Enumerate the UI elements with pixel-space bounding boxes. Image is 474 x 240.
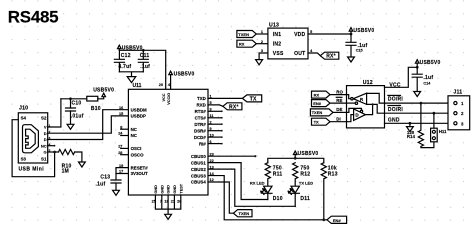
svg-text:10: 10 [210,133,214,137]
U12 receiver triangle R [353,93,366,104]
flag TXEN (U12) [310,109,333,116]
svg-text:H11: H11 [439,129,447,134]
pin 2 stub [208,123,222,125]
svg-text:S3: S3 [21,156,27,161]
internal bus C (D out join) [366,104,373,114]
DI internal route [347,115,354,122]
resistor R12 [293,163,298,187]
svg-text:GND: GND [160,185,164,194]
wire VCC to 5V node [385,67,418,87]
RO internal route [347,95,351,99]
pin 11 stub [208,117,222,119]
ground (C11 C12) [127,77,136,83]
svg-text:DE: DE [336,107,342,112]
capacitor C15 [346,34,356,57]
svg-text:8: 8 [120,125,122,129]
svg-text:RX LED: RX LED [250,181,265,186]
svg-text:VDD: VDD [294,32,305,38]
svg-text:TXEN: TXEN [312,110,323,115]
power symbol USB5V0 (top rail) [118,45,122,49]
svg-text:D10: D10 [273,196,283,202]
internal bus B (R bottom to DO/RI 2) [367,104,385,113]
flag EN# (bottom) [327,216,347,223]
power symbol USB5V0 (J11) [415,60,419,64]
svg-text:DI: DI [336,117,340,122]
wire RXD to RX* flag [208,105,223,106]
svg-text:TXD: TXD [197,96,206,101]
IC U12 body [347,86,385,128]
svg-text:R12: R12 [300,171,310,177]
svg-text:TX: TX [250,96,257,102]
connector J11 body [448,96,470,130]
svg-text:2: 2 [261,40,263,44]
svg-text:C12: C12 [121,53,131,59]
svg-text:S1: S1 [41,156,47,161]
svg-text:6: 6 [210,140,212,144]
svg-text:.1uf: .1uf [140,64,150,70]
svg-text:1M: 1M [62,168,69,174]
wire CBUS0 stub [208,155,255,157]
svg-text:J11: J11 [453,90,462,96]
svg-text:RX*: RX* [326,54,336,60]
wire pin4 [170,75,172,90]
svg-text:B10: B10 [91,106,101,112]
ground (U11) [165,214,172,219]
svg-text:IN1: IN1 [273,32,282,38]
wire RX to RO [330,94,347,96]
svg-text:25: 25 [152,199,156,203]
USB receptacle symbol inner [26,129,36,148]
wire 5V to ferrite bead [61,98,87,100]
svg-text:1: 1 [261,30,263,34]
flag TXEN (bottom) [233,210,252,217]
svg-text:EN#: EN# [333,218,342,223]
header H11 [431,128,438,142]
pin 9 stub [208,130,222,132]
svg-text:EN#: EN# [313,101,322,106]
svg-text:D: D [44,131,47,136]
svg-text:R11: R11 [273,171,283,177]
svg-text:C10: C10 [72,100,82,106]
pin 6 stub [208,143,222,145]
svg-text:GND: GND [388,117,400,123]
svg-text:RTS#: RTS# [195,109,207,114]
wire GND to J11 pin3 [385,122,454,124]
svg-text:CBUS3: CBUS3 [191,173,206,178]
IC U13 body [268,28,308,59]
wire TX to DI [330,121,347,123]
svg-text:C15: C15 [356,48,363,52]
svg-text:GND: GND [167,185,171,194]
RE internal route [347,102,356,104]
svg-text:USBDP: USBDP [131,114,146,119]
svg-text:C14: C14 [423,81,431,85]
wire CBUS3 to EN# rail [208,176,327,220]
svg-text:RXD: RXD [197,103,206,108]
svg-text:NC: NC [131,133,138,138]
pin 27 stub [121,147,129,149]
ground (C14) [414,92,421,97]
svg-text:OUT: OUT [294,51,305,57]
pin 10 stub [208,136,222,138]
junction R13 rail [322,218,325,221]
wire EN# to RE [330,102,347,104]
svg-text:4.7uf: 4.7uf [118,64,131,70]
svg-text:.01uf: .01uf [71,113,84,119]
DE enable bubble [360,110,362,112]
wire DO/RI 2 to J11 pin2 [385,112,454,114]
junction H11 tap [433,112,436,115]
svg-text:C13: C13 [100,174,110,180]
svg-text:7: 7 [160,199,162,203]
svg-text:GND: GND [173,185,177,194]
pin 24 stub [121,135,129,137]
wire CBUS2 to D11 [208,169,295,206]
svg-text:2: 2 [210,120,212,124]
junction GND drop [409,122,412,125]
wire VBUS pin V up to 5V rail [48,99,61,127]
svg-text:CTS#: CTS# [195,116,207,121]
pin 8 stub [121,128,129,130]
flag RX* [223,103,242,110]
svg-text:CBUS2: CBUS2 [191,167,206,172]
svg-text:G: G [43,150,46,155]
svg-text:CBUS1: CBUS1 [191,160,206,165]
svg-text:VCC: VCC [162,93,166,101]
svg-text:OSCI: OSCI [131,146,142,151]
svg-text:3V3OUT: 3V3OUT [131,171,148,176]
wire H11 top [433,113,435,128]
svg-text:RX: RX [239,42,245,47]
svg-text:NC: NC [131,127,138,132]
svg-text:.1uf: .1uf [423,75,433,81]
wire TXD to TX flag [208,97,242,99]
wire G pin [48,151,59,153]
wire USB D- to USBDM [48,110,129,140]
stub NC pin [48,145,55,147]
svg-text:USB5V0: USB5V0 [298,151,319,157]
LED supply rail [268,155,324,163]
svg-text:NC: NC [41,143,47,148]
power symbol USB5V0 (bead) [102,93,106,97]
ground (U13 VSS) [256,60,263,65]
junction G / shield [53,151,56,154]
power symbol USB5V0 (U13) [349,28,353,32]
junction rail R12 [294,157,297,160]
LED D10 arrows [261,189,266,195]
svg-text:S4: S4 [21,115,27,120]
svg-text:D: D [44,137,47,142]
svg-text:20: 20 [159,83,163,87]
svg-text:VCCIO: VCCIO [167,93,171,105]
shield outline wire to G net [12,120,55,177]
junction R14 tap [420,102,423,105]
svg-text:16: 16 [119,106,123,110]
ferrite bead B10 [87,96,98,101]
RE enable bubble [355,102,357,104]
capacitor C12 [114,50,124,72]
LED D11 arrows [288,189,293,195]
wire RESET tied to 3V3OUT [116,168,128,174]
svg-text:DTR#: DTR# [194,122,206,127]
resistor R14 [418,103,434,148]
wire DO/RI 1 to J11 pin1 [385,102,454,104]
flag EN# (U12) [312,100,331,107]
ground (C13) [113,190,120,195]
ground (C10) [67,124,74,129]
wire OUT to RX* flag [308,53,320,56]
J11 pin 3 [454,122,457,125]
svg-text:3: 3 [210,108,212,112]
flag RX* (U13 out) [320,52,339,59]
svg-text:27: 27 [118,145,122,149]
ground (GND net) [407,127,414,132]
svg-text:RX*: RX* [229,104,239,110]
svg-text:USBDM: USBDM [131,107,147,112]
wire R10 to ground [75,152,82,162]
USB receptacle symbol outer [23,125,39,153]
junction VDD node [350,33,353,36]
resistor R10 zigzag [59,149,75,154]
svg-text:21: 21 [171,199,175,203]
U12 driver triangle D [354,109,366,121]
svg-text:DCD#: DCD# [194,135,207,140]
wire 5V top rail to pin20 [119,49,165,90]
svg-text:VSS: VSS [273,51,284,57]
wire bead to USB5V0 arrow [98,97,104,99]
svg-text:USB Mini: USB Mini [19,166,45,172]
svg-text:11: 11 [210,114,214,118]
svg-text:V: V [44,125,47,130]
svg-text:D11: D11 [300,196,310,202]
wire TXEN to DE [333,111,347,113]
svg-text:TEST: TEST [179,183,183,193]
capacitor C11 [138,50,148,72]
wire CBUS1 to D10 [208,163,268,200]
power symbol USB5V0 (VCCIO pin4) [169,71,173,75]
internal bus A (R top to DO/RI 1) [367,93,385,103]
flag RX (U13 input) [237,40,256,47]
svg-text:GND: GND [154,185,158,194]
wire TXEN to IN1 [256,33,268,35]
capacitor C13 [111,174,121,191]
connector J10 body [18,113,47,163]
svg-text:OSCO: OSCO [131,152,145,157]
flag TX [242,95,261,102]
svg-text:DO/RI: DO/RI [388,107,404,113]
svg-text:R13: R13 [328,171,338,177]
svg-text:S2: S2 [41,115,47,120]
svg-text:18: 18 [164,199,168,203]
junction C10 tap [69,97,72,100]
DE internal route [347,108,362,112]
svg-text:RI#: RI# [199,141,206,146]
LED D10 [264,186,272,199]
receiver output bubble [351,98,353,100]
svg-text:RESET#: RESET# [131,165,149,170]
wire RX to IN2 [256,43,268,45]
svg-text:3: 3 [261,49,263,53]
resistor R11 [265,163,270,187]
svg-text:TXEN: TXEN [239,211,250,216]
svg-text:RE: RE [336,98,342,103]
svg-text:U11: U11 [133,83,142,89]
pin 28 stub [121,154,129,156]
svg-text:CBUS4: CBUS4 [191,180,206,185]
svg-text:.1uf: .1uf [96,182,106,188]
svg-text:TXEN: TXEN [238,32,249,37]
svg-text:CBUS0: CBUS0 [191,154,206,159]
svg-text:TX: TX [314,120,319,125]
capacitor C10 plates [66,108,76,111]
svg-text:DO/RI: DO/RI [388,97,404,103]
J11 pin 2 [454,112,457,115]
pin 3 stub [208,110,222,112]
ground (R10) [79,162,86,167]
svg-text:RX: RX [314,92,320,97]
capacitor C14 [412,67,422,91]
wire VSS to ground [259,53,268,60]
svg-text:VCC: VCC [389,82,400,88]
svg-text:USB5V0: USB5V0 [174,71,195,77]
svg-text:USB5V0: USB5V0 [353,28,374,34]
svg-text:28: 28 [118,151,122,155]
svg-text:R14: R14 [407,134,416,139]
J11 pin 1 [454,102,457,105]
flag TXEN (U13 input) [237,31,256,38]
svg-text:RS485: RS485 [8,8,58,27]
svg-text:26: 26 [177,199,181,203]
wire CBUS4 to TXEN flag [208,182,233,213]
wire VDD to USB5V0 [308,31,351,34]
resistor R13 [321,163,326,220]
svg-text:J10: J10 [19,105,28,111]
svg-text:IN2: IN2 [273,42,282,48]
svg-text:USB5V0: USB5V0 [93,87,114,93]
svg-text:C11: C11 [140,53,150,59]
svg-text:USB5V0: USB5V0 [420,60,441,66]
svg-text:15: 15 [119,112,123,116]
capacitor C10 stem [70,99,72,125]
power symbol USB5V0 (LED rail) [293,151,297,155]
svg-text:9: 9 [210,127,212,131]
bottom GND pin stubs [155,195,180,214]
svg-text:TX LED: TX LED [299,181,313,186]
wire caps to ground [119,72,143,77]
LED D11 [291,186,299,206]
ground (C15) [348,57,355,62]
flag TX (U12) [312,118,331,125]
svg-text:DSR#: DSR# [194,128,206,133]
junction 5V node [416,66,419,69]
flag RX (U12) [312,91,331,98]
svg-text:RO: RO [336,89,343,94]
wire USB D+ to USBDP [48,116,129,133]
NC stub end dot [54,145,56,147]
junction C11 tap [142,49,145,52]
IC U11 body [128,89,208,195]
